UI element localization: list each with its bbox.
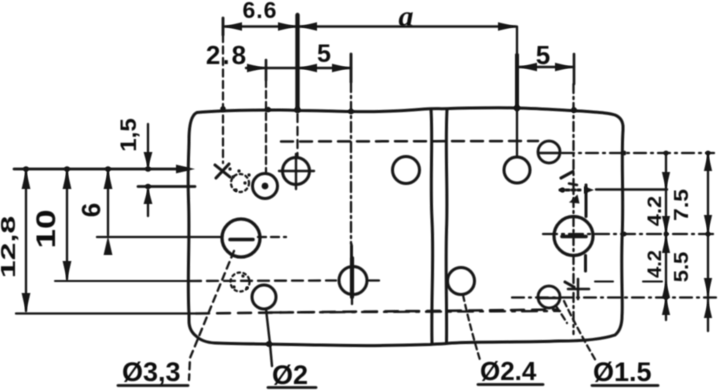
svg-text:1,5: 1,5 [116, 118, 141, 152]
hole 2 [252, 285, 276, 309]
svg-text:a: a [399, 0, 414, 33]
column x351 dashdot [350, 82, 353, 258]
row y313 (12.8) [16, 312, 196, 314]
left ref row y169 [14, 168, 186, 171]
svg-text:12,8: 12,8 [0, 216, 19, 278]
tiny cross B [561, 172, 573, 179]
dim text 4.2 lower [644, 250, 665, 278]
right row B y186.5 [560, 189, 580, 192]
plain circle left body [393, 157, 420, 184]
divider wire left [431, 109, 433, 344]
dim text 6 [76, 203, 106, 217]
arrow dim 2.8 [247, 64, 265, 73]
divider wire right [445, 109, 449, 342]
column x351 thick through hole [350, 258, 354, 297]
right dim col x666 [665, 155, 667, 320]
right dim col x708 [707, 155, 709, 331]
svg-text:2.8: 2.8 [206, 40, 248, 70]
dim text 5.5 [671, 251, 693, 282]
svg-text:5.5: 5.5 [671, 251, 693, 282]
row y237 (6) [97, 236, 220, 238]
svg-text:Ø2: Ø2 [272, 360, 308, 390]
dashed hidden row top y141 [281, 140, 538, 143]
big hole 3.3 [222, 219, 260, 257]
arrows dim 12,8 [22, 170, 31, 189]
arrows dim 10 [63, 170, 72, 189]
dim text 1,5 [116, 118, 141, 152]
dim text 7.5 [669, 189, 692, 221]
holes: cluster cross x222 [215, 164, 230, 178]
svg-text:Ø3,3: Ø3,3 [122, 357, 181, 387]
dim col 12.8 x26 [25, 171, 27, 311]
svg-text:5: 5 [317, 40, 331, 68]
arrows dim 5 right [519, 63, 537, 72]
hole 2.4 [448, 268, 475, 295]
crosshair hole left [283, 158, 310, 185]
right row D y281 [595, 281, 662, 283]
svg-text:6: 6 [76, 203, 106, 217]
dim text 10 [31, 209, 61, 248]
arrows dim 7.5/5.5 column [704, 153, 712, 171]
scatter dots cluster [231, 175, 234, 178]
svg-text:Ø1.5: Ø1.5 [593, 357, 652, 387]
dim col 10 x67 [66, 171, 68, 279]
right row A y153 [562, 152, 714, 154]
extension line x223 dashed [222, 35, 224, 163]
junction dots [294, 107, 300, 113]
svg-text:10: 10 [31, 209, 61, 248]
row y186 short [138, 185, 195, 188]
dim col 6 x108 [107, 171, 109, 235]
arrow ref row right [176, 165, 195, 174]
arrowheads & dots [22, 22, 713, 347]
arrows dim 6 [104, 170, 113, 189]
right row E y297 [512, 296, 716, 298]
leaders [189, 251, 234, 380]
cross D [568, 279, 589, 299]
column x351 tick [350, 54, 353, 82]
underlines [118, 384, 188, 387]
dim line 2.8 / 5 [246, 67, 351, 69]
hidden dotted circle bottom [231, 273, 250, 292]
dotted ghost circle [231, 174, 249, 192]
arrows dim a [299, 22, 317, 31]
center column x297.5 solid [295, 15, 299, 110]
top dim line 6.6 / a [225, 25, 516, 27]
svg-text:4.2: 4.2 [644, 196, 665, 226]
center column x297.5 dash [296, 114, 298, 156]
column x574 tick [573, 54, 576, 84]
dim col 1.5 x148 [147, 124, 149, 166]
svg-text:7.5: 7.5 [669, 189, 692, 221]
svg-text:Ø2.4: Ø2.4 [480, 356, 537, 386]
right plain circle [504, 157, 530, 183]
arrows dim 4.2 column [662, 172, 670, 189]
dim text 4.2 upper [644, 196, 665, 226]
arrows dim 6.6 [224, 22, 242, 31]
row y281 (10) [55, 280, 190, 282]
dashed hidden row bottom y310 [196, 310, 558, 314]
big right crosshair hole [554, 217, 593, 256]
svg-text:6.6: 6.6 [243, 0, 278, 23]
right row C y233 [543, 233, 716, 235]
dim text 12,8 [0, 216, 19, 278]
column x573 dashdot [572, 84, 574, 334]
circle with dot [253, 174, 278, 199]
extension tick x266 [265, 60, 268, 80]
small theta hole [538, 141, 560, 163]
svg-text:4.2: 4.2 [644, 250, 665, 278]
hole 1.5 [538, 286, 560, 308]
extension line x266 [265, 80, 267, 172]
right 5 dim line [519, 66, 574, 68]
bottom center hole [339, 267, 367, 295]
arrows dim 5 left [299, 64, 317, 73]
small marks near node B [584, 186, 594, 194]
body outline (two relay bodies, wavy scan) [188, 108, 623, 346]
svg-text:5: 5 [536, 40, 550, 70]
extension tick x223 [222, 18, 225, 35]
column x517 [516, 27, 518, 56]
arrows dim 1,5 [144, 152, 153, 168]
